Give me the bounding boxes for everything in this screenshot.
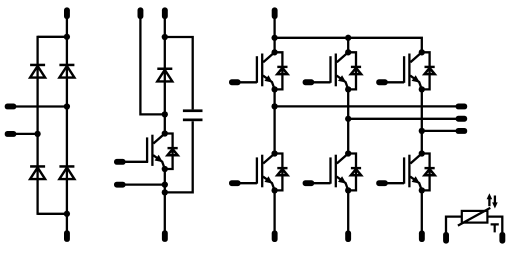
thermistor RT body [462,211,488,223]
diode D41 [351,167,361,169]
terminal chopper bottom [162,230,168,242]
diode D7 [168,147,178,149]
wire phase rail [275,105,456,107]
node phase output Q3 [345,116,351,122]
wire chopper main line lower [164,169,166,231]
transistor Q4 body bar [335,155,337,188]
terminal inverter bottom [419,230,425,242]
node Q1 emitter [271,86,277,92]
transistor Q7 emitter lead [153,155,165,169]
transistor Q1 body bar [261,54,263,87]
terminal phase output [456,116,468,122]
transistor Q1 emitter arrow [264,75,272,82]
transistor Q1 gate bar [256,56,258,83]
transistor Q4 emitter lead [337,177,349,191]
node Q2 emitter [271,187,277,193]
terminal gate Q4 [303,180,315,186]
node Q6 emitter [419,187,425,193]
node capacitor return junction [162,189,168,195]
transistor Q3 body bar [335,54,337,87]
terminal inverter bottom [272,230,278,242]
capacitor C1 plate 1 [183,109,203,112]
node phase output Q1 [271,103,277,109]
transistor Q4 gate bar [329,157,331,183]
wire Q1 emitter to phase node [273,89,275,153]
transistor Q6 emitter arrow [412,176,420,183]
transistor Q2 emitter lead [263,177,275,191]
diode D51 [425,66,435,68]
node chopper aux junction [162,111,168,117]
terminal AC input 1 [5,104,17,110]
transistor Q5 emitter arrow [412,75,420,82]
terminal thermistor left [443,232,449,244]
transistor Q7 emitter arrow [155,155,163,162]
transistor Q5 body bar [408,54,410,87]
terminal inverter DC+ top [272,7,278,19]
transistor Q3 emitter lead [337,76,349,90]
node Q2 collector [271,150,277,156]
diode D61 [425,167,435,169]
wire gate lead Q4 [311,182,330,184]
label T [491,223,499,232]
node Q7 collector [162,130,168,136]
transistor Q5 emitter lead [410,76,422,90]
terminal chopper emitter sense [114,182,126,188]
node Q4 emitter [345,187,351,193]
node bridge top junction [64,34,70,40]
node Q5 collector [419,49,425,55]
transistor Q2 emitter arrow [264,176,272,183]
transistor Q1 collector lead [263,52,274,62]
terminal gate Q3 [303,79,315,85]
wire AC1 to right leg [14,105,67,107]
node AC2 junction [34,131,40,137]
wire inverter top rail [275,38,422,53]
transistor Q2 gate bar [256,157,258,183]
wire bridge left leg [36,36,38,215]
wire thermistor left lead [446,217,462,233]
transistor Q7 gate bar [146,137,148,162]
transistor Q3 gate bar [329,56,331,83]
wire D11 diode branch [275,52,283,89]
terminal AC input 2 [5,131,17,137]
terminal thermistor right [499,232,505,244]
transistor Q5 collector lead [410,52,421,62]
transistor Q6 gate bar [403,157,405,183]
diode D2 [59,64,74,66]
wire to capacitor top [165,37,193,109]
arrow up (temperature) [488,198,490,207]
transistor Q5 gate bar [403,56,405,83]
transistor Q6 emitter lead [410,177,422,191]
wire gate lead Q3 [311,81,330,83]
wire Q6 emitter drop [421,190,423,230]
wire D7 diode branch [165,134,173,170]
diode D5 [157,68,172,71]
wire phase rail [348,118,456,120]
thermistor RT diagonal [458,208,490,226]
capacitor C1 plate 2 [183,119,203,122]
node Q3 emitter [345,86,351,92]
transistor Q2 body bar [261,155,263,188]
node Q3 collector [345,49,351,55]
wire bridge right leg [66,17,68,231]
wire D41 diode branch [348,154,356,191]
terminal phase output [456,128,468,134]
node Q7 emitter [162,166,168,172]
node emitter sense junction [162,181,168,187]
transistor Q7 collector lead [153,134,164,144]
wire AC2 to left leg [14,133,38,135]
wire D21 diode branch [275,154,283,191]
node Q1 collector [271,49,277,55]
node top rail leg2 [345,35,351,41]
wire bridge bottom horizontal [38,213,67,215]
terminal phase output [456,104,468,110]
transistor Q6 collector lead [410,154,421,164]
terminal chopper aux top [138,7,144,19]
diode D4 [59,165,74,168]
terminal chopper gate [114,159,126,165]
terminal gate Q6 [376,180,388,186]
transistor Q6 body bar [408,155,410,188]
wire gate lead Q2 [238,182,257,184]
wire D51 diode branch [422,52,430,89]
terminal chopper DC+ top [162,7,168,19]
wire Q5 emitter to phase node [421,89,423,153]
terminal gate Q5 [376,79,388,85]
node Q5 emitter [419,86,425,92]
diode D1 [30,64,45,66]
node Q4 collector [345,150,351,156]
wire chopper aux branch [140,17,164,114]
node bridge bottom junction [64,211,70,217]
transistor Q7 body bar [151,135,153,166]
node Q6 collector [419,150,425,156]
wire emitter sense lead [123,183,165,185]
wire D31 diode branch [348,52,356,89]
node chopper cap tap [162,34,168,40]
wire gate lead Q1 [238,81,257,83]
wire leg2 top drop [347,38,349,53]
terminal gate Q2 [229,180,241,186]
wire inverter DC+ drop [273,17,275,52]
wire chopper gate lead [123,161,148,163]
terminal DC- bottom (bridge) [64,230,70,242]
node AC1 junction [64,103,70,109]
transistor Q3 collector lead [337,52,348,62]
transistor Q4 collector lead [337,154,348,164]
wire capacitor bottom return [165,121,193,192]
arrow down (temperature) [494,196,496,205]
wire Q2 emitter drop [273,190,275,230]
diode D11 [277,66,287,68]
diode D31 [351,66,361,68]
wire phase rail [422,130,456,132]
wire Q4 emitter drop [347,190,349,230]
terminal DC+ top (bridge) [64,7,70,19]
wire chopper main line upper [164,17,166,135]
wire thermistor right lead [487,217,502,233]
diode D21 [277,167,287,169]
wire gate lead Q6 [385,182,404,184]
node phase output Q5 [419,128,425,134]
diode D3 [30,165,45,168]
transistor Q4 emitter arrow [338,176,346,183]
wire bridge top horizontal [38,36,67,38]
transistor Q3 emitter arrow [338,75,346,82]
node top rail leg1 [271,35,277,41]
transistor Q2 collector lead [263,154,274,164]
wire gate lead Q5 [385,81,404,83]
wire Q3 emitter to phase node [347,89,349,153]
terminal inverter bottom [345,230,351,242]
terminal gate Q1 [229,79,241,85]
transistor Q1 emitter lead [263,76,275,90]
wire D61 diode branch [422,154,430,191]
